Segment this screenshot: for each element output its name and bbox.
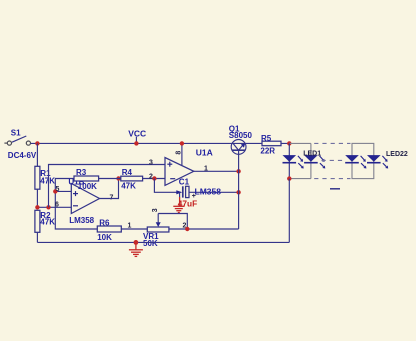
- wire U1B output pin7: [100, 179, 119, 199]
- junction VR1 wiper/terminal: [185, 227, 189, 231]
- svg-text:6: 6: [55, 202, 59, 209]
- wire U1B pin6: [37, 206, 71, 208]
- junction pin8/VCC: [180, 141, 184, 145]
- resistor R6: [97, 226, 121, 232]
- LED panel box 1: [289, 143, 311, 178]
- transistor Q1: [231, 140, 246, 155]
- svg-text:22R: 22R: [260, 146, 275, 155]
- svg-text:S1: S1: [11, 128, 21, 137]
- wire Q1 base down to VR1 node: [238, 150, 240, 229]
- junction output/Q1 base: [236, 169, 240, 173]
- resistor R5: [262, 141, 281, 146]
- wire ref to U1A pin3: [49, 165, 166, 208]
- svg-text:LED22: LED22: [386, 151, 408, 158]
- polarity arrow at C1: [176, 190, 182, 194]
- junction switch/R1/rail: [35, 141, 39, 145]
- svg-text:R6: R6: [99, 218, 110, 227]
- wire VR1 to output node: [169, 228, 239, 230]
- resistor R3: [74, 176, 99, 181]
- svg-text:3: 3: [152, 208, 159, 212]
- junction LED return: [287, 176, 291, 180]
- svg-text:100K: 100K: [78, 182, 97, 191]
- LED 1b: [304, 155, 325, 168]
- junction R3/R4/pin7: [116, 176, 120, 180]
- dashed continuation bottom: [314, 178, 350, 180]
- LED panel box 2: [352, 143, 374, 178]
- svg-text:R4: R4: [122, 168, 133, 177]
- op-amp U1B: [71, 184, 99, 214]
- ground (C1 negative): [173, 192, 184, 212]
- junction pin2/C1 branch: [152, 176, 156, 180]
- junction R5/LED rail: [287, 141, 291, 145]
- svg-text:10K: 10K: [97, 233, 112, 242]
- svg-text:R3: R3: [76, 168, 87, 177]
- svg-text:50K: 50K: [143, 239, 158, 248]
- LED 2b: [367, 155, 388, 168]
- junction pin5 node: [53, 189, 57, 193]
- svg-text:U1A: U1A: [196, 148, 213, 158]
- svg-text:5: 5: [56, 186, 60, 193]
- junction R1/R2: [35, 205, 39, 209]
- svg-text:2: 2: [149, 174, 153, 181]
- wire pin5 node to R6: [55, 191, 97, 229]
- resistor R2: [35, 210, 40, 242]
- LED 1a: [283, 155, 304, 168]
- ellipsis dash: [330, 188, 340, 190]
- wire R3 to pin5 elbow: [55, 179, 74, 192]
- wire U1B pin5: [55, 190, 71, 192]
- dashed continuation middle: [322, 159, 345, 161]
- svg-text:LM358: LM358: [69, 216, 94, 225]
- svg-text:R5: R5: [261, 134, 272, 143]
- svg-text:47K: 47K: [40, 177, 55, 186]
- junction VCC tap: [134, 141, 138, 145]
- wire R6 to VR1: [121, 228, 147, 230]
- wire LED return: [288, 179, 290, 243]
- svg-text:LM358: LM358: [195, 186, 222, 196]
- svg-text:VCC: VCC: [128, 128, 146, 138]
- switch S1: [4, 136, 30, 145]
- svg-text:1: 1: [128, 223, 132, 230]
- wire R4 to U1A pin2: [143, 178, 165, 180]
- resistor R1: [35, 143, 40, 207]
- junction ref tap: [46, 205, 50, 209]
- potentiometer VR1: [147, 214, 187, 233]
- svg-text:47K: 47K: [40, 218, 55, 227]
- resistor R4: [121, 176, 143, 181]
- svg-text:LED1: LED1: [303, 151, 321, 158]
- wire VCC top rail: [31, 142, 290, 144]
- op-amp U1A: [165, 158, 194, 186]
- ground (supply return): [129, 240, 143, 256]
- wire node to R4: [99, 178, 121, 180]
- dashed continuation top: [314, 142, 350, 144]
- LED 2a: [345, 155, 366, 168]
- wire U1A power pin8: [181, 143, 183, 165]
- junction C1/output node: [236, 190, 240, 194]
- svg-text:DC4-6V: DC4-6V: [8, 151, 37, 160]
- svg-text:C1: C1: [179, 177, 190, 186]
- wire bottom rail: [37, 241, 289, 243]
- svg-text:47K: 47K: [121, 181, 136, 190]
- wire pin2 to C1: [154, 179, 177, 193]
- wire U1A output: [194, 170, 239, 172]
- svg-text:S8050: S8050: [229, 131, 253, 140]
- svg-text:3: 3: [149, 160, 153, 167]
- capacitor C1: [183, 186, 196, 200]
- wire C1 to output node: [189, 191, 239, 193]
